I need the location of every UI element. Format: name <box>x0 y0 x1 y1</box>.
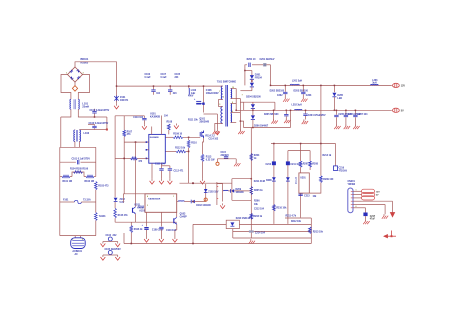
svg-text:U101: U101 <box>150 113 156 116</box>
svg-text:C108: C108 <box>206 90 212 92</box>
svg-text:YW396: YW396 <box>348 184 356 186</box>
svg-text:8: 8 <box>232 102 233 104</box>
transistor Q103 under box <box>176 212 178 217</box>
thermistor TH101 <box>95 213 98 221</box>
svg-text:1: 1 <box>173 196 174 198</box>
svg-text:C111 104: C111 104 <box>155 163 165 166</box>
svg-text:L202 3uH: L202 3uH <box>292 105 303 107</box>
line cap C101 <box>60 161 76 163</box>
R202 on aux vertical upper <box>250 213 253 219</box>
svg-text:1N4148: 1N4148 <box>236 191 245 194</box>
varistor Z101 <box>116 86 118 96</box>
svg-text:R213 10k: R213 10k <box>313 231 324 233</box>
gnd of cluster2 <box>273 110 275 119</box>
svg-text:R207: R207 <box>303 164 309 166</box>
snubber pin right of U102: inductor <box>177 201 179 203</box>
vertical 287.9 opto <box>287 151 289 224</box>
svg-text:C102 0.22uF/275V: C102 0.22uF/275V <box>90 110 110 112</box>
vertical 273.9 opto LED branch <box>273 144 275 224</box>
svg-text:2SK2645: 2SK2645 <box>199 121 209 124</box>
terminal P201 <box>393 83 400 87</box>
svg-text:12V: 12V <box>376 191 380 193</box>
startup rail H <box>115 115 144 117</box>
gate drive network <box>199 136 200 138</box>
clamp branch to chassis <box>204 113 218 115</box>
common-mode choke L101 <box>69 99 72 109</box>
svg-text:R206: R206 <box>254 201 260 203</box>
svg-text:1: 1 <box>356 190 357 192</box>
wire bridge right to choke L101 <box>78 75 89 100</box>
svg-text:47uF: 47uF <box>370 217 376 220</box>
svg-text:23mH: 23mH <box>82 106 89 109</box>
svg-text:400V: 400V <box>188 95 194 98</box>
rail cap C107 <box>169 86 171 89</box>
svg-text:PC123: PC123 <box>296 176 298 184</box>
svg-text:Z101: Z101 <box>120 97 126 99</box>
svg-text:100uF/400V: 100uF/400V <box>206 92 219 95</box>
svg-text:C203: C203 <box>306 95 312 97</box>
svg-text:R104 R105 R106: R104 R105 R106 <box>70 167 89 170</box>
loop bottom wire <box>60 235 96 237</box>
svg-text:D210 1N4148: D210 1N4148 <box>236 217 251 220</box>
HV DC rail wire <box>117 85 221 87</box>
svg-text:D208: D208 <box>266 180 272 182</box>
C204 <box>305 110 307 113</box>
zener Z103 and node <box>205 184 207 202</box>
+12V rail <box>244 84 246 86</box>
svg-text:1uH: 1uH <box>191 93 196 95</box>
svg-text:0.22 1W: 0.22 1W <box>206 160 215 162</box>
svg-text:C115: C115 <box>221 152 227 154</box>
MOSFET Q101 <box>200 131 203 139</box>
svg-text:C213: C213 <box>304 195 310 197</box>
svg-text:R203 1k: R203 1k <box>253 216 262 218</box>
divider resistors R207 R208 <box>299 161 302 167</box>
net flag below bridge <box>74 82 76 86</box>
wires choke1 down to X-cap network <box>61 109 71 117</box>
bridge rectifier BD101 <box>68 67 83 82</box>
zener + left rail of U101 <box>115 157 131 159</box>
svg-text:AC: AC <box>75 253 79 256</box>
L201 <box>290 84 299 85</box>
connector pins <box>353 190 362 192</box>
svg-text:R110: R110 <box>191 143 197 145</box>
svg-text:C202: C202 <box>277 95 283 97</box>
link to pwm box top <box>115 204 123 206</box>
svg-text:Z103 18V: Z103 18V <box>208 191 219 193</box>
source resistor R113 <box>203 138 204 154</box>
aux supply vertical 251.3 <box>250 128 252 239</box>
boxed diode D210 <box>226 220 239 228</box>
cap C213 <box>300 193 302 217</box>
svg-text:C210: C210 <box>266 164 272 166</box>
cap C216 472/1kV <box>335 144 337 166</box>
svg-text:CN201: CN201 <box>348 181 356 183</box>
svg-text:R101 1M: R101 1M <box>63 181 73 183</box>
svg-text:R211 4.7k: R211 4.7k <box>286 215 297 218</box>
PWM IC box U102 <box>145 194 177 213</box>
rail cap C106 <box>153 86 155 89</box>
aux vcc diode D209 <box>231 189 234 193</box>
controller U101 blue box <box>149 134 166 163</box>
svg-text:D205 SB2100: D205 SB2100 <box>264 114 279 116</box>
svg-text:LED: LED <box>337 98 342 100</box>
svg-text:R208: R208 <box>312 164 318 166</box>
svg-text:472/1kV: 472/1kV <box>339 169 348 172</box>
AC inlet <box>74 236 76 238</box>
svg-text:C114 102: C114 102 <box>209 137 219 140</box>
resistor R116 to bottom rail <box>130 222 132 225</box>
resistor R108 above box <box>168 124 171 130</box>
rectifier cluster 2 <box>240 101 243 103</box>
svg-text:KA5M: KA5M <box>137 206 144 209</box>
R209 on feedback tap <box>320 176 323 183</box>
svg-text:4: 4 <box>147 195 148 198</box>
choke L102 <box>74 129 76 132</box>
wire under zener rail <box>115 221 177 223</box>
svg-text:U201: U201 <box>300 178 306 180</box>
svg-text:L201 3uH: L201 3uH <box>292 81 303 83</box>
svg-text:Q103: Q103 <box>180 214 186 216</box>
svg-text:0.1uF: 0.1uF <box>161 77 168 79</box>
svg-text:R108: R108 <box>167 122 173 124</box>
svg-text:R111 10k: R111 10k <box>188 119 198 121</box>
svg-text:KA3842B: KA3842B <box>150 136 159 139</box>
svg-text:C112 471: C112 471 <box>174 170 185 173</box>
bulk cap C108 <box>203 86 205 112</box>
svg-text:R201 10: R201 10 <box>247 59 257 61</box>
svg-text:KA5M0565R: KA5M0565R <box>148 198 161 201</box>
svg-text:C106: C106 <box>145 74 151 76</box>
Y-cap C105 pair <box>108 251 112 255</box>
svg-text:R214 1k: R214 1k <box>323 154 332 157</box>
svg-text:10D471: 10D471 <box>120 99 129 102</box>
connector CN201 <box>348 188 353 213</box>
X-cap C103 <box>92 125 96 127</box>
Y-cap C104 pair <box>108 237 112 241</box>
svg-text:R107: R107 <box>127 131 133 133</box>
LED D205 branch <box>333 85 335 92</box>
svg-text:C214 104: C214 104 <box>255 231 266 234</box>
svg-text:R116 1k: R116 1k <box>134 229 143 231</box>
svg-text:3: 3 <box>147 205 148 207</box>
svg-text:L203: L203 <box>372 80 378 82</box>
svg-text:D203 SB2100: D203 SB2100 <box>294 91 309 93</box>
wire to feedback column <box>232 178 251 180</box>
fuse F101 <box>60 201 75 203</box>
rail2 cap bank <box>335 110 337 115</box>
svg-text:T3.15A: T3.15A <box>83 199 91 202</box>
svg-text:KA3842B: KA3842B <box>150 116 160 119</box>
svg-text:U102: U102 <box>134 204 140 206</box>
svg-text:Q101: Q101 <box>199 119 205 121</box>
extra filter cap C208 <box>285 110 287 114</box>
C202 on rail1 <box>284 85 286 91</box>
svg-text:R114 2.2: R114 2.2 <box>205 135 215 138</box>
svg-text:R103 473: R103 473 <box>98 185 109 188</box>
Q102 collector vertical <box>135 142 137 207</box>
svg-text:D102 1N4148: D102 1N4148 <box>196 204 211 207</box>
rectifier D201 dual diode <box>245 70 252 72</box>
svg-text:D204 SB2100: D204 SB2100 <box>246 96 261 99</box>
aux return line <box>240 121 243 127</box>
svg-text:R212 10k: R212 10k <box>291 221 302 223</box>
C203 after L201 <box>302 85 304 91</box>
TL431 box U201 <box>299 173 309 193</box>
+5V rail <box>236 109 392 111</box>
svg-text:FR104: FR104 <box>255 77 263 80</box>
primary aux return to gnd <box>215 124 219 130</box>
svg-text:C103 0.22uF/275V: C103 0.22uF/275V <box>89 123 109 125</box>
svg-text:C107: C107 <box>161 74 167 76</box>
svg-text:3uH: 3uH <box>372 83 377 85</box>
terminal P202 <box>393 108 400 112</box>
svg-text:C204 470uF/25V: C204 470uF/25V <box>308 114 326 117</box>
svg-text:R204: R204 <box>254 154 260 157</box>
feedback top rail <box>271 143 336 145</box>
L202 <box>295 108 303 111</box>
feedback tap from rail1 <box>320 85 322 143</box>
svg-text:D201: D201 <box>255 75 261 77</box>
svg-text:L103: L103 <box>191 90 197 92</box>
shield symbol <box>384 231 396 238</box>
diode D102 <box>192 200 195 204</box>
svg-text:ACIN101: ACIN101 <box>72 250 82 253</box>
X-cap C102 <box>94 114 96 118</box>
svg-text:C945P: C945P <box>180 215 188 218</box>
long bottom rail to primary <box>124 243 311 245</box>
svg-text:D202 SB2100: D202 SB2100 <box>270 91 285 93</box>
primary gnd bus y=183 <box>180 182 232 184</box>
wire above PWM box <box>123 193 145 195</box>
svg-text:R205 1k: R205 1k <box>254 190 263 192</box>
right bus B <box>239 99 241 130</box>
svg-text:T101 SWITCHING: T101 SWITCHING <box>217 82 236 84</box>
svg-text:3: 3 <box>219 104 220 106</box>
svg-text:0.1uF: 0.1uF <box>145 77 152 79</box>
svg-text:R210 10k: R210 10k <box>276 208 287 210</box>
transformer right pins <box>231 88 237 90</box>
svg-text:TH101: TH101 <box>99 216 107 218</box>
svg-text:10: 10 <box>232 87 234 89</box>
svg-text:C207 104: C207 104 <box>357 113 368 116</box>
startup cap C113 <box>143 116 145 118</box>
wire bridge top to HV rail <box>75 62 117 86</box>
svg-text:F101: F101 <box>63 200 69 202</box>
caps under U101 <box>151 163 153 179</box>
svg-text:L102: L102 <box>84 132 90 135</box>
svg-text:C109 33uF: C109 33uF <box>152 229 164 231</box>
svg-text:D209: D209 <box>236 189 242 191</box>
aux vcc network verticals <box>216 182 218 205</box>
transistor Q102 <box>132 208 134 213</box>
svg-text:2: 2 <box>223 97 224 99</box>
svg-text:R109 10: R109 10 <box>173 133 183 135</box>
snubber R201 C201 <box>245 65 247 86</box>
U102 bottom pins caps <box>146 212 148 226</box>
svg-text:C101 0.1uF/275V: C101 0.1uF/275V <box>72 158 91 160</box>
svg-text:6: 6 <box>356 206 357 208</box>
svg-text:R112 10k: R112 10k <box>175 147 186 149</box>
input loop <box>60 146 96 148</box>
svg-text:12V: 12V <box>401 86 406 88</box>
svg-text:5V: 5V <box>401 111 404 113</box>
aux vcc coil L104 <box>222 190 225 192</box>
svg-text:R102 1M: R102 1M <box>85 181 95 183</box>
svg-text:C105 222/250V: C105 222/250V <box>105 249 122 251</box>
cap C217 below connector <box>362 207 366 209</box>
svg-text:7: 7 <box>242 95 243 97</box>
rail inductor L103 <box>188 86 190 88</box>
svg-text:C113 104: C113 104 <box>133 116 144 119</box>
cap C214 on aux vertical <box>249 230 254 232</box>
svg-text:D211 4148: D211 4148 <box>254 180 266 183</box>
right bus A <box>235 89 237 111</box>
box top pins <box>151 127 153 135</box>
svg-text:Z102: Z102 <box>120 199 126 201</box>
wire bridge left to choke L101 <box>61 75 71 100</box>
chassis gnd arrow solid <box>390 213 394 217</box>
lower rails <box>285 217 311 219</box>
startup resistor R107 column <box>123 116 125 130</box>
svg-text:1: 1 <box>219 91 220 93</box>
svg-text:C216: C216 <box>339 167 345 169</box>
svg-text:R115 47k: R115 47k <box>118 214 129 217</box>
svg-text:C105: C105 <box>175 74 181 76</box>
svg-text:C201 222/1kV: C201 222/1kV <box>260 59 275 61</box>
svg-text:R113: R113 <box>206 157 212 159</box>
svg-text:R209 100: R209 100 <box>323 179 334 181</box>
connector gnd wires <box>362 200 393 202</box>
net flags <box>362 189 375 193</box>
ferrite bead L203 on 12V rail <box>371 83 379 86</box>
svg-text:6: 6 <box>232 111 233 113</box>
svg-text:5.6V: 5.6V <box>120 202 125 204</box>
wires around boxed diode <box>193 223 226 225</box>
svg-text:D205: D205 <box>337 95 343 97</box>
resistor R103 <box>95 182 98 190</box>
svg-text:C104: C104 <box>106 234 112 237</box>
U101 pin1 wire <box>124 141 149 143</box>
transformer left pins <box>221 85 223 87</box>
svg-text:C110 104: C110 104 <box>166 229 177 232</box>
svg-text:C212 104: C212 104 <box>254 208 265 211</box>
